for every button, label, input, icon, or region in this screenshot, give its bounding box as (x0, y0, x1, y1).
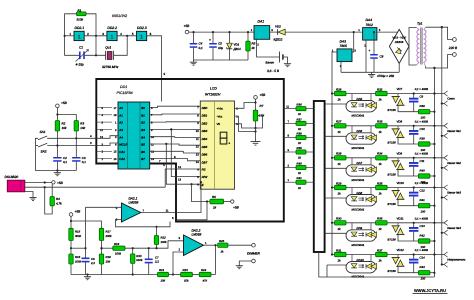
svg-text:C14: C14 (420, 256, 426, 260)
svg-text:B0: B0 (141, 106, 145, 110)
wire mains neutral down (433, 68, 435, 277)
svg-text:DD1: DD1 (120, 85, 127, 89)
svg-text:18: 18 (114, 114, 117, 117)
resistor R37 (284, 117, 314, 131)
wire channel top (332, 93, 444, 95)
wire C1 to Qu1 (85, 54, 106, 56)
svg-text:BT136: BT136 (388, 202, 397, 206)
resistor R35 (376, 181, 388, 195)
resistor R32 (376, 87, 388, 101)
resistor R38 snubber (418, 104, 430, 120)
svg-text:11: 11 (166, 208, 169, 212)
svg-text:R/W: R/W (202, 175, 208, 179)
svg-text:К561ЛН2: К561ЛН2 (112, 14, 127, 18)
wire DA3 gnd (340, 62, 342, 73)
terminal +5V (LCD) (254, 96, 258, 100)
inverter DD2.2 (107, 31, 117, 40)
terminal output 5 lower (442, 232, 444, 234)
svg-text:R36: R36 (377, 217, 383, 221)
capacitor C11 (409, 157, 425, 176)
wire primary top to 220V (426, 27, 453, 39)
wire +Vcc (255, 99, 257, 110)
svg-text:4,7k: 4,7k (56, 201, 62, 205)
wire crystal bottom branch (65, 36, 79, 56)
wire DD2.3 output to DD1 pin16 (147, 36, 162, 102)
resistor R39 snubber (418, 136, 430, 152)
switch SA1 (38, 130, 47, 140)
svg-text:R29: R29 (336, 181, 342, 185)
wire DA1 pin2 to battery (257, 39, 280, 57)
resistor R24 (199, 268, 211, 283)
resistor R25 (218, 239, 228, 254)
svg-text:1k: 1k (213, 206, 217, 210)
svg-text:R37: R37 (297, 117, 303, 121)
wire DA3 out to channels feed (332, 52, 337, 255)
svg-text:0,1 × 400В: 0,1 × 400В (415, 182, 428, 185)
svg-text:13: 13 (196, 153, 199, 156)
svg-text:1: 1 (111, 35, 114, 41)
svg-text:12: 12 (178, 165, 182, 169)
svg-text:R22: R22 (161, 236, 167, 240)
svg-text:0,1: 0,1 (199, 46, 204, 50)
resistor R30 (335, 217, 347, 231)
svg-text:SA1: SA1 (40, 130, 46, 134)
capacitor C9 (409, 92, 424, 111)
terminal +5V (switches) (56, 104, 60, 108)
wire filter ground rail (194, 59, 249, 61)
wire channel top (332, 222, 444, 224)
svg-text:Qu1: Qu1 (105, 46, 111, 50)
svg-text:DA1: DA1 (258, 20, 265, 24)
svg-text:R24: R24 (201, 268, 207, 272)
resistor R16 (69, 241, 82, 275)
svg-text:R23: R23 (183, 268, 189, 272)
terminal DIMMER return (252, 259, 256, 263)
svg-text:A4: A4 (118, 135, 123, 139)
resistor R26 (335, 87, 347, 101)
wire Qu1 to pin4-5 node (114, 36, 128, 56)
svg-text:Свет: Свет (447, 97, 455, 101)
potentiometer R7 (253, 104, 264, 121)
resistor R3 (74, 121, 86, 132)
svg-text:10: 10 (196, 130, 199, 133)
ground (dimmer) (238, 264, 240, 266)
svg-text:BT136: BT136 (388, 108, 397, 112)
wire DS18B20 data (25, 186, 165, 188)
wire triac bottom 2 (398, 138, 418, 144)
svg-text:CA1: CA1 (119, 150, 125, 154)
svg-text:R33: R33 (377, 120, 383, 124)
wire battery to ground (283, 57, 288, 62)
wire +5V to regulators (285, 31, 362, 33)
svg-text:B7: B7 (141, 157, 145, 161)
node pin2-pin3 (84, 35, 107, 37)
svg-text:PIC16F84: PIC16F84 (117, 91, 133, 95)
wire snubber to neutral 1 (430, 111, 435, 113)
svg-text:VD7: VD7 (397, 87, 403, 91)
svg-text:DD2.3: DD2.3 (137, 26, 147, 30)
svg-text:A1: A1 (118, 113, 123, 117)
wire channel top (332, 125, 444, 127)
svg-text:Канал №4: Канал №4 (447, 226, 461, 230)
svg-text:0,1: 0,1 (63, 160, 67, 164)
wire +5V to R2 R3 (56, 108, 58, 121)
svg-text:C11: C11 (420, 159, 425, 163)
svg-text:RS: RS (202, 168, 206, 172)
svg-text:R43: R43 (420, 265, 426, 269)
svg-text:MOC3041: MOC3041 (352, 178, 365, 182)
controller unit box (96, 79, 283, 222)
wire -Vcc (235, 116, 256, 131)
resistor R4 (45, 184, 62, 214)
resistor R22 (154, 222, 170, 250)
capacitor C4 (190, 31, 203, 60)
wire DS18B20 Vdd (25, 182, 52, 184)
svg-text:510k: 510k (77, 18, 84, 22)
svg-text:A2: A2 (118, 121, 123, 125)
svg-text:VD11: VD11 (397, 216, 404, 220)
svg-text:R40: R40 (420, 168, 426, 172)
svg-text:17: 17 (114, 107, 117, 110)
optocoupler DA5 (346, 94, 377, 118)
wire stub (96, 107, 112, 109)
resistor R5 (246, 31, 256, 60)
svg-text:VD3 - VD6: VD3 - VD6 (392, 36, 406, 40)
wire snubber to neutral 5 (430, 240, 435, 242)
terminal output 4 upper (444, 185, 448, 188)
inverter DD2.1 (74, 31, 84, 40)
resistor R2 (55, 121, 67, 132)
svg-text:DA8: DA8 (357, 191, 363, 195)
wire triac bottom 4 (398, 199, 418, 205)
IC DA3 7805 (332, 40, 357, 68)
wire DA2.2 out (204, 244, 218, 246)
svg-text:0,1: 0,1 (82, 160, 86, 164)
svg-text:MOC3041: MOC3041 (352, 146, 365, 150)
wire DB5 net (150, 144, 201, 145)
resistor R40 snubber (418, 168, 430, 184)
svg-text:R38: R38 (420, 104, 426, 108)
resistor R21 (158, 268, 169, 283)
svg-text:Канал №2: Канал №2 (447, 161, 461, 165)
optocoupler DA10 (346, 255, 377, 279)
diode VD2 (270, 24, 286, 41)
wire E net (8) (166, 144, 200, 184)
svg-text:R36: R36 (297, 103, 303, 107)
optocoupler DA7 (346, 158, 377, 182)
svg-text:R21: R21 (159, 268, 165, 272)
svg-text:10k: 10k (184, 279, 189, 283)
wire R7 bottom (255, 121, 257, 142)
terminal output 1 lower (442, 103, 444, 105)
resistor R42 snubber (418, 233, 430, 249)
svg-text:DA5: DA5 (357, 97, 363, 101)
svg-text:10µ: 10µ (218, 46, 223, 50)
op-amp DA2.1 LM358 (116, 196, 145, 222)
svg-text:R37: R37 (377, 248, 383, 252)
svg-text:R41: R41 (297, 176, 303, 180)
wire pin2 (173, 252, 184, 275)
svg-text:R18: R18 (106, 255, 112, 259)
svg-text:B4: B4 (141, 135, 145, 139)
ground (filter) (193, 60, 195, 62)
svg-text:DB2: DB2 (202, 121, 208, 125)
resistor R43 snubber (418, 265, 430, 281)
wire triac bottom 6 (398, 266, 418, 272)
triac VD10 BT136 (388, 181, 405, 206)
svg-text:1: 1 (78, 35, 81, 41)
svg-text:B5: B5 (141, 143, 145, 147)
wire snubber to neutral 6 (430, 272, 435, 274)
svg-text:Канал №1: Канал №1 (447, 129, 461, 133)
svg-text:C13: C13 (420, 224, 426, 228)
svg-text:R19: R19 (114, 242, 120, 246)
wire channel top (332, 187, 444, 189)
feedback wire (214, 245, 216, 274)
terminal +5V (main) (185, 30, 189, 34)
svg-text:7812: 7812 (366, 23, 374, 27)
wire bridge bottom to gnd rail (398, 63, 400, 72)
svg-text:100k: 100k (75, 260, 82, 264)
svg-text:VD10: VD10 (397, 181, 405, 185)
svg-text:DA7: DA7 (357, 161, 363, 165)
LCD WT1602H (200, 87, 234, 190)
terminal output 4 lower (442, 197, 444, 199)
svg-text:2,2: 2,2 (154, 260, 159, 264)
IC DA1 supervisor (251, 20, 273, 47)
capacitor C10 (409, 125, 425, 144)
wire DB4 net (150, 136, 201, 139)
zener VD1 (227, 31, 241, 60)
svg-text:A0: A0 (118, 106, 123, 110)
svg-text:R4: R4 (56, 197, 60, 201)
svg-text:13: 13 (178, 178, 182, 182)
svg-text:-Vcc: -Vcc (217, 114, 223, 118)
resistor R6 (210, 195, 224, 210)
svg-text:DA6: DA6 (357, 129, 363, 133)
svg-text:R38: R38 (297, 132, 303, 136)
ground (R7) (251, 141, 261, 143)
svg-text:R1: R1 (78, 8, 82, 12)
svg-text:R17: R17 (106, 230, 112, 234)
svg-text:100: 100 (421, 210, 426, 214)
svg-text:DA3: DA3 (340, 40, 347, 44)
capacitor C12 (409, 186, 425, 205)
wire DB1 net (150, 113, 201, 116)
triac VD9 BT136 (388, 151, 405, 176)
terminal DIMMER (252, 243, 256, 247)
resistor R1 (77, 8, 87, 21)
wire switches common (36, 138, 77, 170)
wire triac bottom 3 (398, 170, 418, 176)
ground (switches) (56, 169, 58, 171)
svg-text:47k: 47k (203, 279, 208, 283)
svg-text:100k: 100k (161, 240, 168, 244)
wire pin1 DD2.1 (65, 35, 74, 37)
triac VD7 BT136 (388, 87, 405, 112)
wire snubber to neutral 4 (430, 205, 435, 207)
wire pin5 (86, 206, 122, 208)
svg-text:+5В: +5В (75, 210, 82, 214)
svg-text:300k: 300k (75, 234, 82, 238)
svg-text:32768 MHz: 32768 MHz (102, 65, 119, 69)
wire to DIMMER (228, 244, 252, 246)
svg-text:R39: R39 (297, 146, 303, 150)
terminal output 3 lower (442, 167, 444, 169)
svg-text:R39: R39 (420, 136, 426, 140)
capacitor C7 (145, 247, 160, 274)
terminal output 6 lower (442, 264, 444, 266)
wire DB2 net (150, 121, 201, 123)
svg-text:200k: 200k (105, 234, 113, 238)
svg-text:R27: R27 (336, 120, 342, 124)
resistor R15 (69, 228, 82, 240)
svg-text:R42: R42 (420, 233, 426, 237)
IC DD1 PIC16F84 (117, 85, 150, 169)
quartz Qu1 (102, 46, 119, 69)
wire R/W net (13) (171, 129, 200, 176)
wire triac bottom 5 (398, 235, 418, 241)
svg-text:+5В: +5В (233, 206, 240, 210)
svg-text:Батт: Батт (266, 61, 275, 65)
capacitor C5 (209, 31, 223, 60)
wire opto LED return 2 (325, 135, 346, 137)
svg-text:DD2.1: DD2.1 (75, 26, 85, 30)
wire mains phase down (441, 27, 443, 264)
triac VD11 BT136 (388, 216, 405, 241)
svg-text:DIMMER: DIMMER (247, 251, 261, 255)
wire E to R6 (192, 184, 210, 201)
svg-text:R26: R26 (336, 87, 342, 91)
svg-text:VD9: VD9 (397, 151, 403, 155)
wire opto LED return 3 (325, 167, 346, 169)
terminal output 5 upper (444, 220, 448, 223)
node C1/Qu1 to pins2-3 (95, 36, 97, 56)
terminal 220V upper (453, 38, 457, 42)
svg-text:B6: B6 (141, 150, 145, 154)
wire DB3 net (150, 128, 201, 130)
wire pin6 (116, 220, 157, 227)
wire V0 to wiper (235, 124, 256, 128)
svg-text:Тр1: Тр1 (417, 22, 423, 26)
wire DS18B20 gnd (25, 192, 33, 196)
resistor R38 (284, 132, 314, 146)
node pin4-pin5 (117, 35, 136, 37)
wire channel top (332, 157, 444, 159)
svg-text:0,1 × 400В: 0,1 × 400В (415, 120, 428, 123)
wire +5V rail (189, 31, 254, 33)
svg-text:LM358: LM358 (192, 233, 202, 237)
wire DA4 gnd (365, 40, 367, 72)
svg-text:+Vcc: +Vcc (217, 107, 224, 111)
svg-text:LM358: LM358 (129, 201, 139, 205)
svg-text:R41: R41 (420, 198, 426, 202)
svg-text:VD2: VD2 (275, 24, 281, 28)
svg-text:DB3: DB3 (202, 129, 208, 133)
svg-text:R30: R30 (336, 217, 342, 221)
svg-text:0,1 × 400В: 0,1 × 400В (415, 249, 428, 252)
svg-text:14: 14 (196, 161, 199, 164)
optocoupler DA6 (346, 126, 377, 150)
svg-text:LCD: LCD (210, 87, 217, 91)
terminal output 2 lower (442, 135, 444, 137)
svg-text:BT136: BT136 (388, 172, 397, 176)
svg-text:MOC3041: MOC3041 (352, 243, 365, 247)
svg-text:10k: 10k (62, 126, 67, 130)
capacitor C8 (369, 32, 384, 72)
svg-text:Канал №3: Канал №3 (447, 191, 461, 195)
svg-text:B3: B3 (141, 128, 145, 132)
connector bus (314, 101, 325, 252)
IC DA4 7812 (358, 18, 380, 47)
svg-text:DA4: DA4 (366, 18, 373, 22)
svg-text:220 В: 220 В (448, 46, 458, 50)
resistor R36 (284, 103, 314, 117)
svg-text:4-15p: 4-15p (76, 62, 84, 66)
svg-text:12: 12 (196, 146, 199, 149)
svg-text:R7: R7 (260, 104, 264, 108)
optocoupler DA9 (346, 223, 377, 247)
resistor R23 (181, 268, 193, 283)
capacitor C3 (72, 131, 86, 171)
svg-text:15: 15 (114, 151, 117, 154)
terminal 220V lower (453, 53, 457, 57)
wire stub (96, 121, 112, 123)
svg-text:BT136: BT136 (388, 237, 397, 241)
svg-text:MCLR: MCLR (119, 143, 127, 147)
wire opto LED return 6 (327, 264, 346, 266)
svg-text:+5В: +5В (184, 24, 191, 28)
inverter DD2.3 (137, 31, 147, 40)
resistor R39 (284, 146, 314, 160)
svg-text:C12: C12 (420, 189, 426, 193)
wire bridge AC to secondary (409, 28, 417, 47)
svg-text:2k: 2k (251, 46, 256, 50)
wire snubber to neutral 3 (430, 175, 435, 177)
svg-text:7805: 7805 (340, 44, 348, 48)
svg-text:DD2.2: DD2.2 (107, 26, 117, 30)
bridge VD3-VD6 DB106 (389, 29, 409, 63)
svg-text:V0: V0 (217, 122, 221, 126)
wire DA4 out to bridge (377, 29, 399, 32)
svg-text:0,1 × 400В: 0,1 × 400В (415, 88, 428, 91)
svg-text:10k: 10k (161, 279, 166, 283)
terminal output 6 upper (444, 252, 448, 255)
wire snubber to neutral 2 (430, 143, 435, 145)
svg-text:0,1 × 400В: 0,1 × 400В (415, 217, 428, 220)
svg-text:SA2: SA2 (41, 150, 47, 154)
wire stub (96, 128, 112, 130)
wire SA1 to MCLR (47, 136, 118, 139)
resistor R28 (335, 152, 347, 166)
terminal output 1 upper (444, 91, 448, 94)
svg-text:DB6: DB6 (202, 153, 208, 157)
svg-text:DB0: DB0 (202, 106, 208, 110)
wire DA2.1 out (141, 212, 176, 214)
label WWW.JCYTA.RU (413, 288, 448, 294)
svg-text:DB5: DB5 (202, 145, 208, 149)
svg-text:+: + (209, 38, 211, 42)
svg-text:100: 100 (421, 148, 426, 152)
wire primary bottom (426, 55, 453, 69)
resistor R36 (376, 217, 388, 231)
svg-text:C9: C9 (420, 95, 424, 99)
svg-text:DS18B20: DS18B20 (5, 175, 19, 179)
terminal output 2 upper (444, 123, 448, 126)
svg-text:0,1 × 400В: 0,1 × 400В (415, 152, 428, 155)
svg-text:R15: R15 (75, 230, 81, 234)
op-amp DA2.2 LM358 (178, 228, 207, 255)
